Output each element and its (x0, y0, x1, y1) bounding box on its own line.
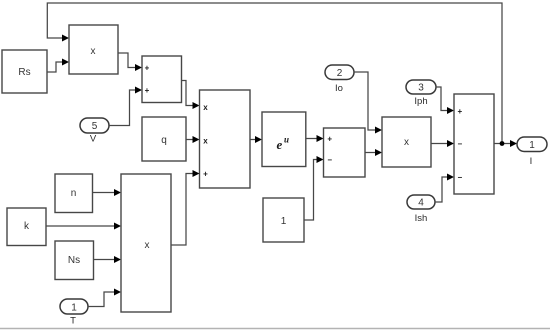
svg-text:Ns: Ns (68, 255, 80, 266)
wire product x1 to sum1 (118, 53, 142, 71)
exp block eu (262, 112, 306, 167)
block k (7, 208, 46, 246)
svg-text:2: 2 (337, 68, 343, 79)
svg-text:+: + (457, 107, 462, 116)
wire sum3 to outport (494, 140, 517, 147)
wire Ns to product5 (94, 256, 122, 263)
svg-text:x: x (203, 103, 208, 112)
inport oval 2 Io (325, 65, 354, 80)
wire product3 to exp (250, 136, 262, 143)
sum1 (142, 56, 182, 103)
svg-text:Iph: Iph (414, 96, 427, 107)
divide product3 (200, 90, 251, 188)
wire feedback loop top (47, 3, 502, 144)
svg-text:u: u (284, 135, 289, 145)
svg-text:+: + (203, 170, 208, 179)
wire q to product3 (186, 136, 200, 143)
product x1 (69, 25, 118, 74)
svg-text:x: x (91, 46, 96, 57)
svg-text:+: + (327, 135, 332, 144)
svg-text:q: q (161, 135, 167, 146)
svg-text:−: − (327, 156, 332, 165)
wire T to product5 (88, 289, 121, 307)
wire Io to product4 (354, 72, 382, 134)
wire product4 to sum3 (431, 140, 454, 147)
svg-text:−: − (457, 140, 462, 149)
node junction dot (500, 141, 505, 146)
svg-text:3: 3 (418, 83, 424, 94)
svg-text:x: x (203, 137, 208, 146)
sum2 (324, 128, 366, 177)
svg-text:4: 4 (418, 198, 424, 209)
svg-text:Ish: Ish (415, 213, 428, 224)
wire sum2 to product4 (365, 149, 382, 156)
svg-text:1: 1 (281, 216, 287, 227)
bottom border line (0, 328, 550, 330)
svg-text:n: n (71, 188, 77, 199)
product5 (121, 174, 171, 312)
wire Iph to sum3 (436, 87, 454, 114)
svg-text:Io: Io (335, 83, 343, 94)
wire V to sum1 (109, 87, 142, 126)
sum3 (454, 94, 494, 194)
block n (55, 174, 93, 213)
svg-text:T: T (70, 316, 76, 327)
svg-text:e: e (277, 137, 283, 152)
wire Ish to sum3 (435, 174, 454, 203)
wire product5 to product3 (171, 170, 200, 245)
svg-text:V: V (90, 134, 97, 145)
svg-text:x: x (404, 137, 409, 148)
wire constant1 to sum2 (304, 156, 324, 220)
wire n to product5 (93, 189, 122, 196)
svg-text:−: − (457, 173, 462, 182)
svg-text:Rs: Rs (18, 67, 30, 78)
block Rs (2, 50, 47, 93)
product4 (382, 117, 431, 167)
svg-text:I: I (530, 156, 533, 167)
wire k to product5 (46, 223, 121, 230)
svg-text:5: 5 (92, 121, 98, 132)
svg-text:+: + (145, 86, 150, 95)
inport oval 5 V (80, 118, 109, 133)
svg-text:1: 1 (529, 140, 535, 151)
svg-text:x: x (145, 240, 150, 251)
block q (142, 117, 186, 161)
inport oval 4 Ish (407, 195, 435, 209)
inport oval 3 Iph (406, 80, 436, 94)
wire sum1 to product3 (182, 81, 200, 110)
wire Rs to product x1 (47, 59, 69, 73)
svg-text:1: 1 (71, 303, 77, 314)
svg-text:+: + (145, 64, 150, 73)
outport oval 1 I (517, 137, 547, 152)
block Ns (55, 241, 94, 280)
inport oval 1 T (60, 299, 88, 314)
wire exp to sum2 (306, 135, 324, 142)
constant 1 block (263, 198, 304, 242)
